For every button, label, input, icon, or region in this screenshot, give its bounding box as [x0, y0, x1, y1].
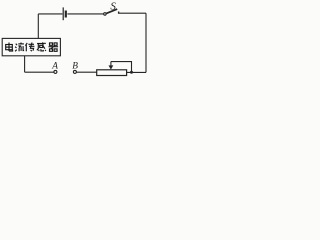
- wire A to left: [25, 71, 54, 73]
- terminal B: [73, 70, 76, 73]
- wire box top vertical: [37, 14, 39, 39]
- char 流: [15, 43, 24, 52]
- sensor label 电流传感器 (drawn strokes): [6, 42, 58, 51]
- rheostat R body: [97, 70, 127, 76]
- wire B to rheostat: [77, 71, 97, 73]
- rheostat wiper arrowhead: [109, 65, 114, 69]
- svg-text:B: B: [72, 61, 78, 71]
- junction dot: [130, 71, 133, 74]
- char 器: [49, 43, 59, 51]
- wire battery to switch: [67, 13, 103, 15]
- char 感: [37, 42, 46, 51]
- wire top right: [118, 12, 146, 14]
- wire left vertical: [24, 56, 26, 72]
- char 电: [6, 43, 13, 52]
- battery cell short plate: [65, 11, 67, 18]
- wire top left: [38, 13, 62, 15]
- switch S pivot contact: [104, 13, 107, 16]
- sensor box U1: [2, 38, 60, 55]
- switch right contact tick: [118, 12, 120, 14]
- terminal A: [54, 70, 57, 73]
- rheostat wiper stem: [110, 62, 112, 66]
- svg-text:S: S: [110, 1, 116, 13]
- wiper branch wire: [111, 62, 132, 73]
- battery cell long plate: [62, 7, 64, 20]
- wire bottom right: [127, 71, 146, 73]
- switch S blade: [106, 9, 117, 13]
- char 传: [25, 43, 34, 52]
- wire right vertical: [145, 13, 147, 72]
- svg-text:A: A: [51, 61, 58, 71]
